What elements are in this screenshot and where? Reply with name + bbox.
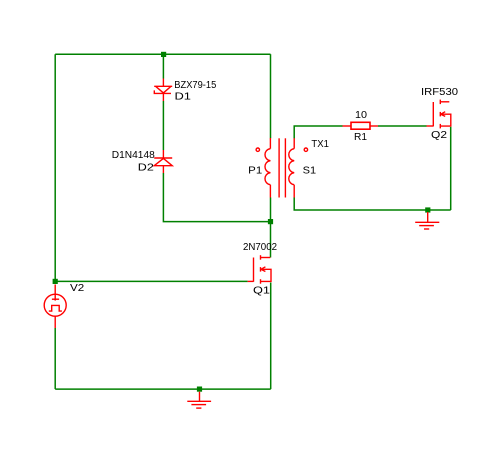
svg-text:P1: P1	[248, 166, 262, 177]
ground bottom	[187, 392, 211, 408]
svg-text:10: 10	[355, 110, 367, 121]
voltage source V2 (pulse)	[44, 285, 66, 329]
svg-text:D1: D1	[175, 92, 192, 103]
wire bottom rail	[55, 388, 271, 390]
wire Q2 source down	[450, 127, 452, 210]
resistor R1	[343, 122, 379, 129]
diode D2 (D1N4148)	[154, 150, 172, 173]
wire R1 to Q2 gate	[378, 125, 427, 127]
svg-text:V2: V2	[70, 283, 85, 294]
svg-text:R1: R1	[354, 132, 367, 143]
svg-text:Q2: Q2	[431, 130, 448, 141]
ground right	[415, 212, 439, 229]
wire D-string bottom to clamp node	[163, 173, 268, 222]
svg-text:TX1: TX1	[311, 139, 329, 150]
transformer TX1 polarity dot primary	[256, 148, 259, 151]
svg-text:S1: S1	[303, 166, 317, 177]
wire secondary top to R1	[294, 126, 342, 138]
svg-text:2N7002: 2N7002	[243, 242, 277, 253]
node junction right ground	[425, 207, 430, 212]
svg-text:IRF530: IRF530	[421, 87, 458, 98]
svg-text:Q1: Q1	[253, 286, 271, 297]
wire top rail	[55, 53, 270, 55]
node junction bottom ground	[197, 387, 202, 392]
node junction top	[161, 52, 166, 57]
wire left vertical	[54, 54, 56, 279]
transformer TX1 primary P1	[265, 138, 270, 198]
transistor Q1 (2N7002 MOSFET)	[248, 255, 271, 284]
svg-text:D1N4148: D1N4148	[112, 150, 155, 161]
wire between D1 and D2	[162, 101, 164, 150]
transistor Q2 (IRF530 MOSFET)	[427, 100, 451, 129]
transformer TX1 polarity dot secondary	[304, 148, 307, 151]
transformer TX1 secondary S1	[289, 138, 294, 198]
wire D-string upper lead	[162, 56, 164, 79]
svg-text:D2: D2	[138, 163, 155, 174]
wire primary bottom to Q1 drain	[270, 198, 272, 258]
wire secondary bottom rail	[294, 198, 451, 211]
wire Q1 source down	[270, 283, 272, 390]
svg-text:BZX79-15: BZX79-15	[174, 80, 216, 91]
wire V2 bottom down	[54, 328, 56, 389]
node junction V2 top	[53, 279, 58, 284]
wire gate line V2 to Q1	[57, 280, 248, 282]
diode D1 (zener BZX79-15)	[154, 79, 172, 102]
transformer TX1 core	[279, 138, 285, 197]
node junction clamp	[268, 219, 273, 224]
wire primary branch vertical	[270, 54, 272, 138]
